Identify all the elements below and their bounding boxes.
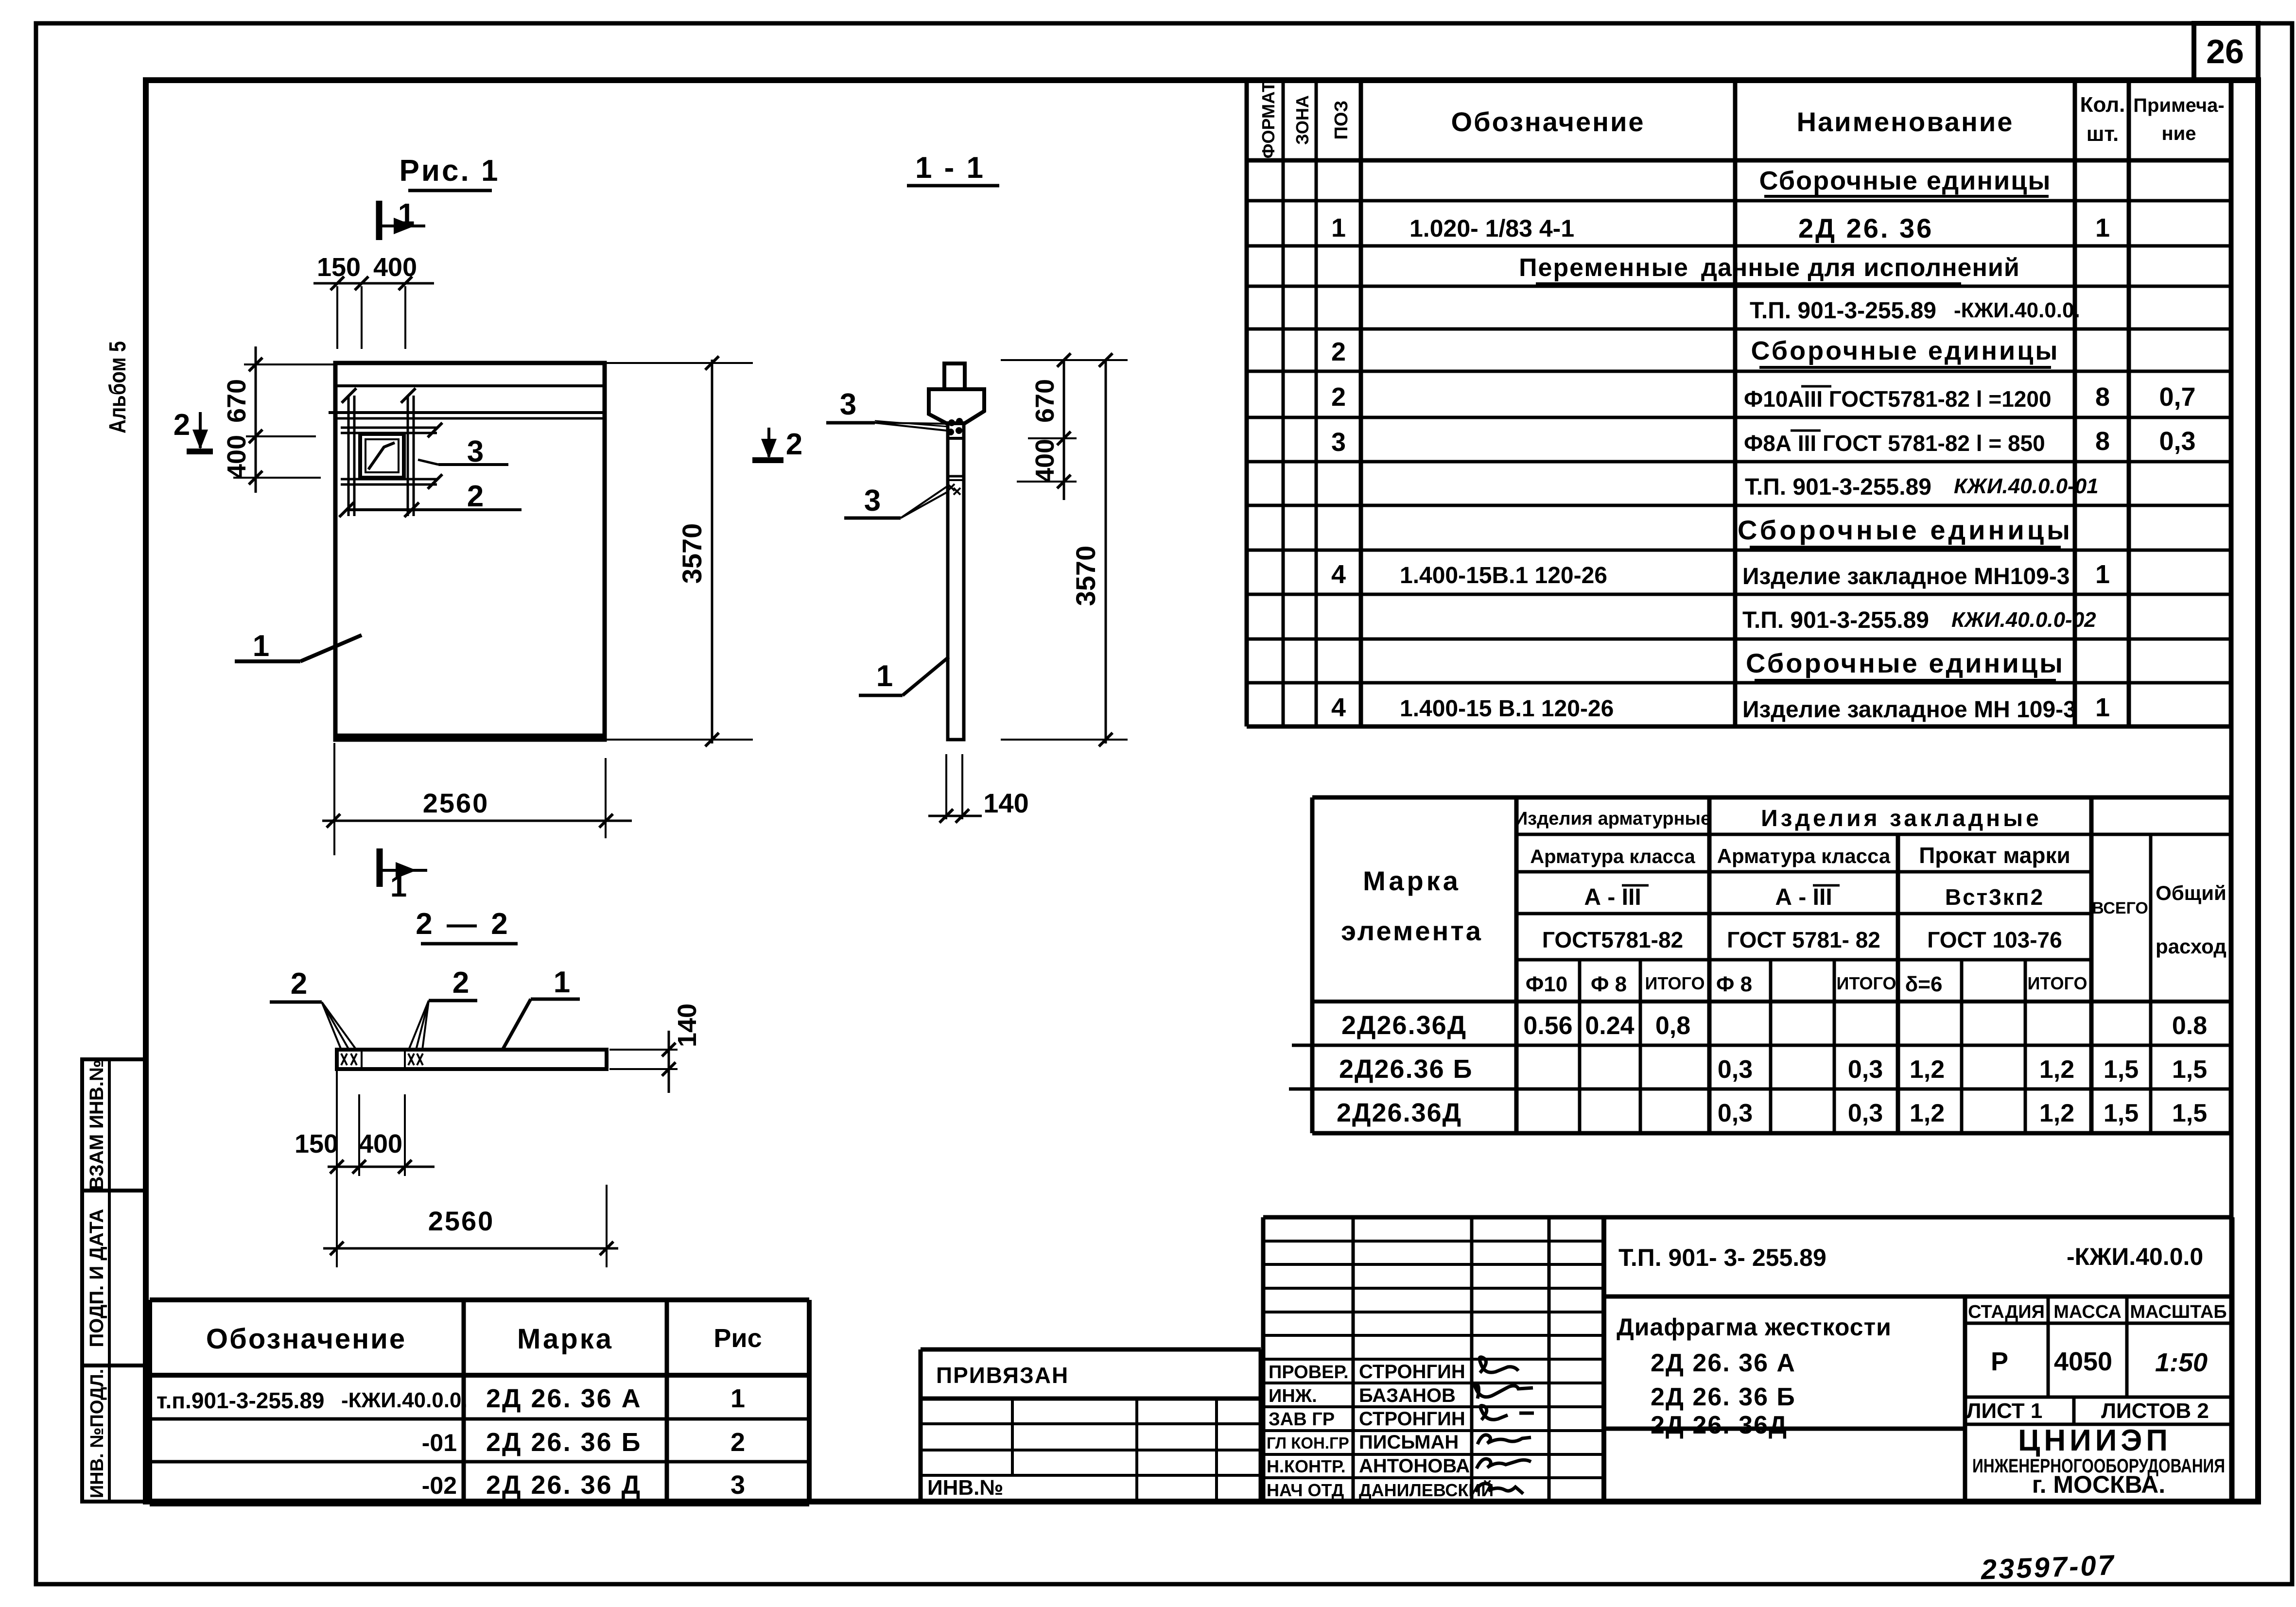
svg-text:1: 1 — [731, 1384, 745, 1413]
svg-text:Марка: Марка — [517, 1323, 613, 1355]
materials table grid — [1289, 797, 2231, 1133]
column head flange — [929, 389, 984, 423]
svg-text:140: 140 — [983, 788, 1028, 818]
svg-text:8: 8 — [2095, 427, 2110, 456]
svg-text:Н.КОНТР.: Н.КОНТР. — [1267, 1456, 1346, 1476]
section mark 2 (left of 1-1) — [767, 428, 770, 457]
column shaft — [948, 423, 964, 740]
svg-text:Примеча-: Примеча- — [2133, 95, 2224, 116]
rebar end ticks — [428, 423, 442, 437]
column head stub — [944, 363, 965, 389]
dim 140 right of 2-2 — [609, 1049, 678, 1051]
svg-text:АНТОНОВА: АНТОНОВА — [1359, 1455, 1470, 1477]
svg-text:140: 140 — [673, 1003, 702, 1047]
svg-text:1,5: 1,5 — [2172, 1099, 2207, 1127]
svg-text:0.56: 0.56 — [1523, 1012, 1572, 1040]
rebar x-marks cluster mid — [408, 1054, 423, 1065]
svg-text:Ф10: Ф10 — [1526, 972, 1568, 996]
svg-text:шт.: шт. — [2087, 122, 2119, 146]
svg-text:Прокат марки: Прокат марки — [1919, 843, 2070, 868]
svg-text:2Д 26. 36 А: 2Д 26. 36 А — [486, 1384, 642, 1413]
left margin stamp: ПОДП. И ДАТА box — [82, 1191, 146, 1365]
svg-text:1 - 1: 1 - 1 — [915, 151, 985, 185]
svg-text:1.400-15В.1 120-26: 1.400-15В.1 120-26 — [1400, 563, 1607, 588]
svg-text:Изделие закладное МН 109-3: Изделие закладное МН 109-3 — [1742, 697, 2076, 723]
svg-text:1: 1 — [253, 629, 269, 663]
svg-text:КЖИ.40.0.0-02: КЖИ.40.0.0-02 — [1951, 608, 2096, 632]
svg-text:ГОСТ 5781- 82: ГОСТ 5781- 82 — [1727, 927, 1880, 952]
svg-text:ГОСТ 103-76: ГОСТ 103-76 — [1927, 927, 2062, 952]
svg-text:400: 400 — [222, 435, 251, 479]
svg-text:Ф8А III ГОСТ 5781-82 l = 850: Ф8А III ГОСТ 5781-82 l = 850 — [1744, 431, 2045, 456]
svg-text:Общий: Общий — [2156, 881, 2226, 904]
svg-text:26: 26 — [2206, 33, 2244, 70]
svg-text:СТРОНГИН: СТРОНГИН — [1359, 1361, 1465, 1382]
svg-text:Диафрагма жесткости: Диафрагма жесткости — [1617, 1313, 1892, 1341]
rebar horizontal pair upper (pos 2) — [341, 427, 437, 429]
svg-text:1,5: 1,5 — [2172, 1055, 2207, 1084]
svg-text:Наименование: Наименование — [1797, 106, 2014, 137]
left margin stamp: ВЗАМ ИНВ № box — [82, 1059, 146, 1191]
svg-text:Обозначение: Обозначение — [1451, 106, 1645, 137]
svg-text:СТАДИЯ: СТАДИЯ — [1968, 1302, 2045, 1322]
svg-text:1: 1 — [398, 198, 415, 231]
dim 2560 below 2-2 — [606, 1185, 608, 1267]
svg-text:400: 400 — [373, 253, 417, 282]
dims 150 400 below 2-2 — [336, 1069, 338, 1267]
svg-text:Альбом 5: Альбом 5 — [105, 341, 131, 433]
svg-text:2Д26.36 Б: 2Д26.36 Б — [1339, 1054, 1473, 1084]
svg-text:ВЗАМ ИНВ.№: ВЗАМ ИНВ.№ — [86, 1060, 107, 1191]
svg-text:0,3: 0,3 — [1718, 1055, 1753, 1084]
svg-text:БАЗАНОВ: БАЗАНОВ — [1359, 1385, 1456, 1406]
svg-text:Арматура класса: Арматура класса — [1530, 846, 1695, 867]
svg-text:Изделие закладное МН109-3: Изделие закладное МН109-3 — [1742, 564, 2070, 589]
svg-text:Т.П. 901- 3- 255.89: Т.П. 901- 3- 255.89 — [1618, 1244, 1826, 1271]
signature grid — [1263, 1217, 1604, 1502]
svg-text:Т.П. 901-3-255.89: Т.П. 901-3-255.89 — [1750, 298, 1936, 324]
svg-text:3570: 3570 — [1070, 546, 1101, 606]
svg-text:3: 3 — [731, 1470, 745, 1500]
svg-text:1: 1 — [876, 659, 893, 693]
svg-text:Обозначение: Обозначение — [206, 1323, 406, 1355]
svg-text:расход: расход — [2156, 935, 2226, 958]
svg-text:ИНВ. №ПОДЛ.: ИНВ. №ПОДЛ. — [87, 1369, 107, 1498]
svg-text:2: 2 — [174, 408, 190, 442]
svg-text:ИТОГО: ИТОГО — [2028, 973, 2087, 993]
left attachment stamp ПРИВЯЗАН — [921, 1349, 1261, 1502]
svg-text:1: 1 — [2095, 693, 2110, 722]
svg-text:т.п.901-3-255.89: т.п.901-3-255.89 — [157, 1388, 325, 1413]
svg-text:1.020- 1/83 4-1: 1.020- 1/83 4-1 — [1409, 215, 1574, 242]
svg-text:Сборочные единицы: Сборочные единицы — [1738, 515, 2073, 545]
svg-text:ФОРМАТ: ФОРМАТ — [1258, 82, 1278, 158]
svg-text:Ф 8: Ф 8 — [1591, 972, 1627, 996]
svg-text:ПИСЬМАН: ПИСЬМАН — [1359, 1432, 1459, 1453]
leader pos 3 — [438, 463, 508, 466]
reference table grid — [150, 1300, 809, 1504]
svg-text:Сборочные единицы: Сборочные единицы — [1751, 336, 2060, 365]
svg-text:2Д 26. 36 Д: 2Д 26. 36 Д — [486, 1470, 642, 1500]
svg-text:2Д26.36Д: 2Д26.36Д — [1337, 1098, 1462, 1127]
svg-text:КЖИ.40.0.0-01: КЖИ.40.0.0-01 — [1954, 474, 2099, 498]
svg-text:2Д 26. 36: 2Д 26. 36 — [1798, 213, 1933, 243]
dim 140 bottom of 1-1 — [945, 754, 947, 819]
svg-text:2Д 26. 36Д: 2Д 26. 36Д — [1651, 1411, 1788, 1439]
svg-text:1: 1 — [554, 966, 570, 999]
svg-text:2: 2 — [1331, 337, 1346, 366]
svg-text:1: 1 — [2095, 560, 2110, 589]
svg-text:0,8: 0,8 — [1655, 1012, 1690, 1040]
svg-text:2Д 26. 36 Б: 2Д 26. 36 Б — [1651, 1383, 1796, 1411]
svg-text:400: 400 — [1030, 439, 1060, 483]
svg-text:-КЖИ.40.0.0: -КЖИ.40.0.0 — [2067, 1243, 2203, 1270]
svg-text:Изделия закладные: Изделия закладные — [1761, 806, 2042, 831]
svg-text:Т.П. 901-3-255.89: Т.П. 901-3-255.89 — [1745, 474, 1931, 500]
svg-text:0.8: 0.8 — [2172, 1012, 2207, 1040]
bottom dimension 2560 — [333, 743, 335, 855]
svg-text:ВСЕГО: ВСЕГО — [2092, 899, 2148, 917]
svg-text:Сборочные единицы: Сборочные единицы — [1759, 166, 2052, 195]
svg-text:г. МОСКВА.: г. МОСКВА. — [2032, 1471, 2165, 1498]
svg-text:ние: ние — [2162, 123, 2196, 144]
svg-text:150: 150 — [317, 253, 361, 282]
svg-text:ИТОГО: ИТОГО — [1645, 973, 1705, 993]
svg-text:0,3: 0,3 — [2159, 427, 2195, 456]
svg-text:-КЖИ.40.0.0.: -КЖИ.40.0.0. — [341, 1388, 468, 1412]
svg-text:ПРОВЕР.: ПРОВЕР. — [1269, 1362, 1349, 1382]
svg-text:3570: 3570 — [677, 523, 707, 584]
rebar horizontal pair lower (pos 2) — [341, 478, 437, 481]
lower plate x-marks — [948, 484, 960, 495]
svg-text:2: 2 — [467, 480, 484, 513]
svg-text:Рис. 1: Рис. 1 — [400, 154, 500, 188]
left dimension 670 / 400 — [255, 346, 257, 493]
svg-text:Марка: Марка — [1363, 865, 1461, 896]
dim 3570 right — [1105, 360, 1107, 743]
panel outline (front view) — [335, 363, 605, 740]
long right divider line x=4591 — [2229, 80, 2234, 1502]
slab outline — [337, 1050, 607, 1069]
svg-text:2Д26.36Д: 2Д26.36Д — [1341, 1011, 1467, 1040]
svg-text:ЦНИИЭП: ЦНИИЭП — [2018, 1424, 2172, 1457]
svg-text:0,3: 0,3 — [1848, 1099, 1883, 1127]
svg-text:Сборочные единицы: Сборочные единицы — [1746, 648, 2065, 678]
panel inner double line — [329, 411, 605, 414]
svg-text:0,3: 0,3 — [1848, 1055, 1883, 1084]
svg-text:2560: 2560 — [423, 788, 489, 818]
lower plate lines — [946, 475, 962, 478]
section mark 1 (bottom) bar — [377, 848, 383, 887]
svg-text:1: 1 — [1331, 213, 1346, 242]
svg-text:2: 2 — [1331, 382, 1346, 412]
svg-text:Переменные: Переменные — [1519, 254, 1689, 282]
stamp: stage/mass/scale — [1965, 1296, 2232, 1424]
svg-text:3: 3 — [840, 388, 856, 421]
svg-text:0,7: 0,7 — [2159, 382, 2195, 412]
svg-text:670: 670 — [1030, 379, 1060, 423]
slab dividers — [361, 1050, 363, 1069]
svg-text:2: 2 — [452, 966, 469, 1000]
svg-text:ПОДП. И ДАТА: ПОДП. И ДАТА — [86, 1209, 107, 1348]
svg-text:ПОЗ: ПОЗ — [1331, 101, 1352, 140]
svg-text:4: 4 — [1331, 693, 1346, 722]
svg-text:2Д 26. 36 Б: 2Д 26. 36 Б — [486, 1428, 642, 1457]
svg-text:1,5: 1,5 — [2104, 1055, 2139, 1084]
svg-text:Ф10АIII ГОСТ5781-82 l =1200: Ф10АIII ГОСТ5781-82 l =1200 — [1744, 386, 2052, 412]
svg-text:1,2: 1,2 — [1910, 1099, 1945, 1127]
svg-text:А - III: А - III — [1775, 884, 1832, 910]
leader pos 1 (panel) — [235, 659, 300, 663]
svg-text:150: 150 — [295, 1129, 338, 1158]
shaft break line — [948, 437, 964, 440]
svg-text:1:50: 1:50 — [2155, 1348, 2208, 1377]
svg-text:0,3: 0,3 — [1718, 1099, 1753, 1127]
svg-text:МАСШТАБ: МАСШТАБ — [2130, 1302, 2226, 1322]
svg-text:23597-07: 23597-07 — [1980, 1549, 2116, 1586]
svg-text:СТРОНГИН: СТРОНГИН — [1359, 1408, 1465, 1430]
svg-text:1: 1 — [390, 870, 407, 903]
svg-text:Р: Р — [1991, 1347, 2008, 1376]
svg-text:2 — 2: 2 — 2 — [416, 907, 510, 941]
svg-text:3: 3 — [864, 484, 881, 518]
svg-text:ГЛ КОН.ГР: ГЛ КОН.ГР — [1267, 1434, 1349, 1452]
embedded plate MH109-3 (pos 3) outer square — [360, 434, 404, 478]
svg-text:2: 2 — [291, 967, 307, 1001]
svg-text:2Д 26. 36 А: 2Д 26. 36 А — [1651, 1349, 1796, 1377]
svg-text:4050: 4050 — [2054, 1347, 2112, 1376]
svg-text:2560: 2560 — [428, 1206, 495, 1236]
svg-text:0.24: 0.24 — [1585, 1012, 1634, 1040]
svg-text:1,2: 1,2 — [2039, 1099, 2074, 1127]
svg-text:ЛИСТ 1: ЛИСТ 1 — [1966, 1399, 2043, 1423]
embedded plate anchor diagonal — [368, 443, 395, 469]
svg-text:Изделия арматурные: Изделия арматурные — [1514, 809, 1711, 829]
svg-text:1: 1 — [2095, 213, 2110, 242]
svg-text:ЗАВ ГР: ЗАВ ГР — [1269, 1409, 1335, 1430]
svg-text:670: 670 — [222, 379, 251, 423]
svg-text:-КЖИ.40.0.0.: -КЖИ.40.0.0. — [1954, 298, 2080, 322]
svg-text:Арматура класса: Арматура класса — [1717, 845, 1891, 867]
weld dots upper — [948, 419, 955, 426]
svg-text:2: 2 — [731, 1428, 745, 1457]
rebar vertical pair left (pos 2) — [348, 396, 350, 516]
svg-text:элемента: элемента — [1341, 916, 1483, 946]
svg-text:А - III: А - III — [1584, 884, 1641, 910]
svg-text:ГОСТ5781-82: ГОСТ5781-82 — [1542, 927, 1683, 952]
spec table grid — [1247, 80, 2231, 726]
svg-text:3: 3 — [1331, 428, 1346, 457]
svg-text:-01: -01 — [422, 1429, 457, 1456]
svg-text:ДАНИЛЕВСКИЙ: ДАНИЛЕВСКИЙ — [1359, 1480, 1494, 1500]
svg-text:δ=6: δ=6 — [1905, 972, 1943, 996]
svg-text:1.400-15 В.1 120-26: 1.400-15 В.1 120-26 — [1400, 696, 1614, 722]
top dimension line 150 400 — [313, 282, 434, 285]
signature squiggles — [1479, 1357, 1518, 1373]
svg-text:Вст3кп2: Вст3кп2 — [1945, 884, 2044, 910]
svg-text:400: 400 — [359, 1129, 402, 1158]
section mark 1 (top) bar — [376, 201, 383, 240]
dim 670/400 right of section — [1001, 359, 1128, 361]
svg-text:ИТОГО: ИТОГО — [1837, 973, 1896, 993]
svg-text:Ф 8: Ф 8 — [1716, 972, 1752, 996]
svg-text:данные для исполнений: данные для исполнений — [1701, 254, 2020, 282]
rebar vertical pair right (pos 2) — [407, 396, 409, 516]
svg-text:МАССА: МАССА — [2053, 1302, 2122, 1322]
svg-text:НАЧ ОТД: НАЧ ОТД — [1267, 1480, 1344, 1500]
svg-text:Рис: Рис — [713, 1324, 762, 1353]
svg-text:1,5: 1,5 — [2104, 1099, 2139, 1127]
svg-text:3: 3 — [467, 435, 484, 468]
main stamp cells — [1604, 1217, 2232, 1502]
svg-text:ЛИСТОВ 2: ЛИСТОВ 2 — [2101, 1399, 2209, 1423]
svg-text:ИНВ.№: ИНВ.№ — [927, 1476, 1003, 1500]
panel inner line top — [335, 384, 605, 387]
svg-text:2: 2 — [786, 428, 802, 461]
svg-text:1,2: 1,2 — [2039, 1055, 2074, 1084]
svg-text:Т.П. 901-3-255.89: Т.П. 901-3-255.89 — [1742, 607, 1929, 633]
svg-text:ПРИВЯЗАН: ПРИВЯЗАН — [936, 1363, 1069, 1388]
svg-text:4: 4 — [1331, 560, 1346, 589]
leader pos 2 — [346, 508, 522, 511]
sheet number box 26 — [2194, 23, 2258, 80]
svg-text:Кол.: Кол. — [2080, 93, 2125, 117]
svg-text:ИНЖ.: ИНЖ. — [1269, 1386, 1317, 1406]
embedded plate inner square — [365, 439, 399, 472]
right dimension 3570 — [605, 362, 753, 364]
left margin stamp: ИНВ № ПОДЛ box — [82, 1365, 146, 1502]
svg-text:1,2: 1,2 — [1910, 1055, 1945, 1084]
section mark 1 (top) arrow line — [379, 225, 425, 227]
svg-text:ЗОНА: ЗОНА — [1292, 95, 1312, 145]
svg-text:-02: -02 — [422, 1472, 457, 1499]
svg-text:8: 8 — [2095, 382, 2110, 412]
rebar x-marks cluster left — [341, 1054, 357, 1065]
